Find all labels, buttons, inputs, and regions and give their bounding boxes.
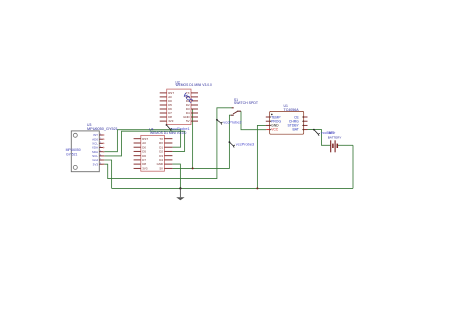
wire battery minus to rail: [352, 145, 354, 188]
wire ground rail: [112, 187, 353, 189]
probe vccBatt+: [313, 129, 336, 136]
svg-text:5V: 5V: [186, 119, 190, 123]
wire 5V row: U4.5V right to probe3 riser: [172, 115, 230, 168]
wire U1.GND left and down to rail: [257, 125, 266, 188]
wire battery left terminal from U1.BAT: [308, 130, 331, 146]
U2 left pins RST A0 D0 D5 D6 D7 D8 3V3: [160, 93, 167, 121]
wire 3V3 net: U3.3V3 right, down, long run right, up to switch top contact: [103, 108, 232, 179]
junction dot ground tap: [179, 187, 181, 189]
U4 right pins TX RX D1 D2 D3 D4 GND 5V: [164, 139, 172, 169]
junction dot U1 GND at rail: [256, 187, 258, 189]
svg-text:MPU6050_GY521: MPU6050_GY521: [87, 127, 118, 131]
wire U4.GND down to ground junction: [172, 164, 180, 188]
wire GND: U3.Gnd to ground rail: [103, 160, 111, 188]
module U3 MPU6050_GY521 body: [66, 131, 100, 172]
wire switch lower contact down and right to U1.VCC: [241, 111, 266, 130]
U4 left pins RST A0 D0 D5 D6 D7 D8 3V3: [134, 139, 141, 169]
svg-text:3V3: 3V3: [168, 119, 174, 123]
wire SCL: U3.SCL up over to U4.D2: [103, 131, 184, 156]
svg-text:TC4056A: TC4056A: [284, 108, 300, 112]
svg-text:5V: 5V: [159, 167, 163, 171]
svg-text:vccProbe2: vccProbe2: [223, 120, 241, 125]
svg-text:vccProbe3: vccProbe3: [236, 142, 254, 147]
svg-text:WEMOS D1 MINI V3.0.0: WEMOS D1 MINI V3.0.0: [176, 83, 212, 87]
battery BT1: [331, 140, 338, 152]
wire battery right terminal: [338, 144, 353, 146]
svg-text:3V3: 3V3: [142, 167, 148, 171]
svg-text:BATTERY: BATTERY: [328, 136, 342, 140]
U1 left pins TEMP PROG GND VCC: [266, 117, 270, 130]
svg-text:WEMOS D1 MINI V3.0.0: WEMOS D1 MINI V3.0.0: [150, 131, 186, 135]
svg-text:SWITCH SPDT: SWITCH SPDT: [234, 101, 259, 105]
probe vccProbe3: [229, 141, 255, 147]
op U4 WEMOS D1 MINI body: [141, 135, 165, 171]
wire U2.D3 down to 5V junction: [192, 109, 194, 168]
wire SDA: U3.SDA up over to U4.D1: [103, 130, 180, 152]
pin 1 marker: [271, 114, 273, 116]
U3 pins INT AD0 XCL XDA SDA SCL Gnd 3V3: [99, 135, 103, 164]
ic U1 TC4056A body: [270, 111, 304, 134]
U2 right pins TX RX D1 D2 D3 D4 GND 5V: [191, 93, 198, 121]
svg-text:GY-521: GY-521: [66, 152, 77, 156]
svg-text:vccProbe1: vccProbe1: [171, 126, 189, 131]
svg-text:VCC: VCC: [271, 127, 279, 131]
junction dot 5V row: [192, 167, 194, 169]
svg-text:BAT: BAT: [292, 127, 298, 131]
U1 right pins CE CHRG STDBY BAT: [304, 117, 308, 130]
op U2 WEMOS D1 MINI body: [167, 89, 191, 125]
probe vccProbe1: [166, 124, 190, 131]
svg-text:3V3: 3V3: [93, 162, 99, 166]
ground: [176, 188, 184, 200]
svg-text:vccBatt+: vccBatt+: [321, 131, 336, 135]
probe vccProbe2: [216, 119, 242, 125]
